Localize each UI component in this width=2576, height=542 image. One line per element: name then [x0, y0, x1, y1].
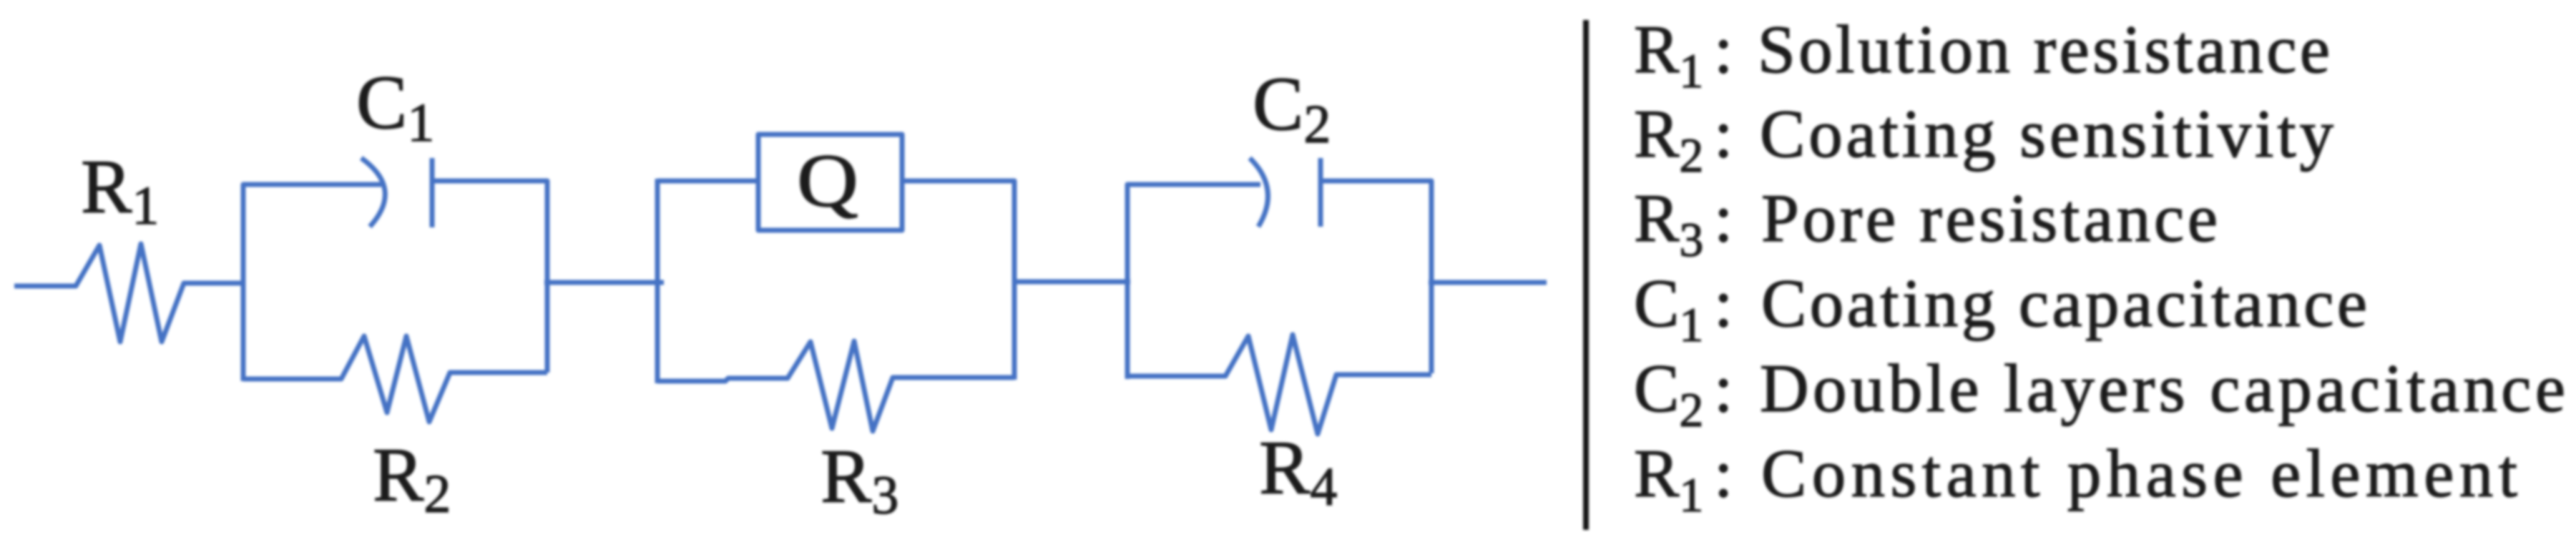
svg-text:C1:Coating capacitance: C1:Coating capacitance	[1634, 265, 2367, 352]
svg-text:R3:Pore resistance: R3:Pore resistance	[1634, 180, 2218, 267]
svg-text:R2: R2	[373, 433, 451, 524]
svg-text:C1: C1	[356, 61, 434, 153]
svg-text:R1:Constant phase element: R1:Constant phase element	[1634, 435, 2517, 522]
svg-text:R1: R1	[81, 145, 159, 236]
svg-text:R2:Coating sensitivity: R2:Coating sensitivity	[1634, 96, 2334, 182]
svg-text:R1:Solution resistance: R1:Solution resistance	[1634, 11, 2330, 98]
svg-text:R3: R3	[821, 435, 898, 526]
svg-text:Q: Q	[797, 139, 858, 222]
svg-text:R4: R4	[1259, 426, 1337, 517]
svg-text:C2:Double layers capacitance: C2:Double layers capacitance	[1634, 350, 2565, 437]
svg-text:C2: C2	[1253, 62, 1331, 154]
